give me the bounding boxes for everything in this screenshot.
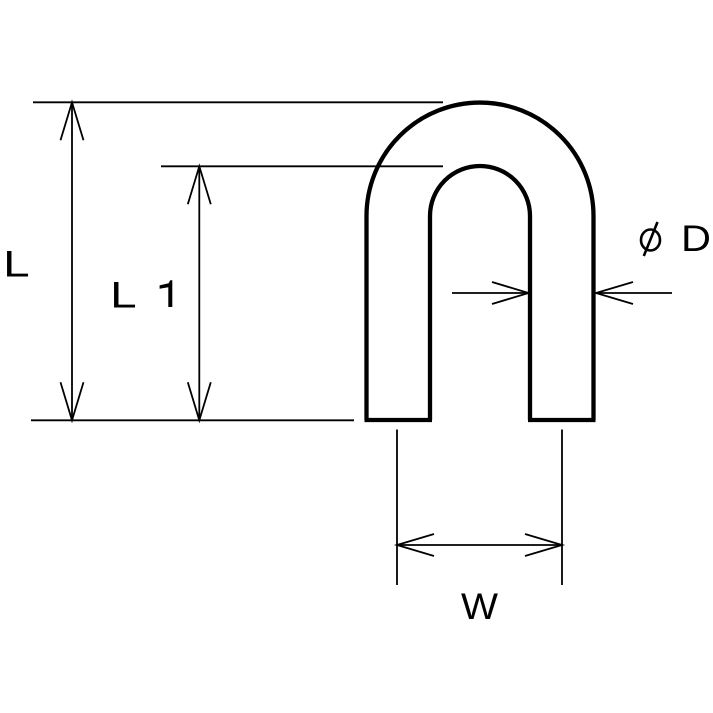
svg-text:L: L xyxy=(3,244,30,285)
svg-text:D: D xyxy=(681,218,711,259)
svg-text:W: W xyxy=(461,586,498,627)
svg-text:L: L xyxy=(110,275,137,316)
